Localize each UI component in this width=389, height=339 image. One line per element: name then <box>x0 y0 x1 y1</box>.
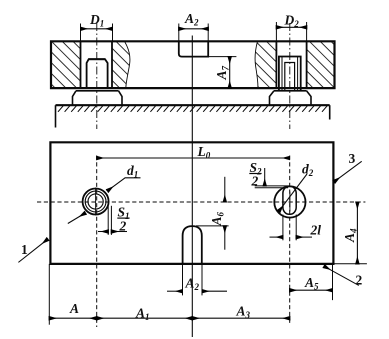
dimension L0 <box>97 157 290 159</box>
pin 2 body outer <box>279 57 301 91</box>
dimension A6 <box>196 225 229 227</box>
svg-text:2: 2 <box>251 174 259 189</box>
hatched block mid-left <box>112 41 130 88</box>
pin 2 land (stadium) <box>283 186 296 214</box>
hole 2 left edge <box>275 41 277 88</box>
dimension A2 (bottom) extension lines <box>182 264 184 296</box>
hatched block left <box>51 41 81 88</box>
leader 1 <box>18 239 47 262</box>
hole d1 inner <box>88 194 103 209</box>
svg-text:A2: A2 <box>185 276 200 293</box>
svg-text:A4: A4 <box>342 228 359 243</box>
svg-text:A2: A2 <box>184 11 199 28</box>
dimension D2 <box>275 22 277 41</box>
S1 fraction bar <box>117 217 129 219</box>
svg-text:A7: A7 <box>214 65 231 80</box>
svg-text:1: 1 <box>21 242 28 257</box>
slot (plan) <box>183 226 202 264</box>
S1/2 dimension arrows <box>98 231 108 233</box>
leader 3 <box>334 161 362 181</box>
svg-text:2l: 2l <box>310 223 322 238</box>
hole 2 right edge <box>306 41 308 88</box>
dimension A <box>49 317 96 319</box>
2l extension lines <box>282 215 284 241</box>
hatched block mid-right <box>255 41 276 88</box>
svg-text:d1: d1 <box>127 163 138 180</box>
leader d1 <box>108 178 141 191</box>
hatched block right <box>307 41 335 88</box>
dimension A2 (top) <box>178 24 180 42</box>
pin 2 flange <box>270 91 312 105</box>
d1 center mark <box>95 188 97 216</box>
dimension A4 <box>335 263 367 265</box>
S2 fraction bar <box>249 173 261 175</box>
S2/2 arrow <box>264 168 266 186</box>
dimension A5 <box>332 264 334 300</box>
dimension D1 <box>80 24 82 41</box>
pin 1 body <box>87 59 108 88</box>
S1/2 extension lines <box>107 206 109 235</box>
dimension A1 <box>97 317 193 319</box>
base (table) line <box>56 104 330 106</box>
pin 2 centerline <box>289 23 291 129</box>
hole d2 circle <box>274 186 305 217</box>
horizontal dashed centerline <box>37 201 365 203</box>
pin 1 top edge <box>89 58 105 60</box>
vertical dashed line at d2 <box>289 156 291 326</box>
central axis line <box>191 36 193 338</box>
dimension A3 <box>192 317 289 319</box>
svg-text:2: 2 <box>119 219 127 234</box>
base left end <box>55 105 57 127</box>
d2 center mark <box>289 192 291 212</box>
svg-text:A6: A6 <box>209 211 226 226</box>
svg-text:A5: A5 <box>304 275 319 292</box>
pin 1 centerline <box>96 23 98 129</box>
pin 1 flange <box>73 91 123 105</box>
plate outline (plan) <box>50 142 333 264</box>
svg-text:A1: A1 <box>135 306 150 323</box>
left edge extension <box>48 264 50 325</box>
leader d2 <box>279 174 307 211</box>
leader to d1 lower-left <box>68 213 86 224</box>
2l dimension arrows <box>270 236 283 238</box>
break line (wavy) right of pin 1 <box>125 41 130 88</box>
base right end <box>329 105 331 119</box>
vertical dashed line at d1 <box>96 156 98 328</box>
break line (wavy) left of pin 2 <box>255 41 258 88</box>
notch (slot A2) in plate <box>179 41 208 56</box>
hole d1 middle <box>85 191 106 212</box>
dimension A7 <box>208 56 236 58</box>
jig plate outline <box>51 41 335 88</box>
pin 2 inner flats <box>282 57 298 91</box>
svg-text:D2: D2 <box>284 13 300 30</box>
svg-text:2: 2 <box>356 273 363 288</box>
svg-text:D1: D1 <box>89 12 104 29</box>
A2 bottom arrows <box>167 290 183 292</box>
base hatch ticks <box>58 106 327 112</box>
hole 1 left edge <box>80 41 82 88</box>
svg-text:d2: d2 <box>302 162 314 179</box>
pin 2 inner land <box>285 63 295 91</box>
hole 1 right edge <box>111 41 113 88</box>
hole d1 outer <box>83 189 109 215</box>
svg-text:A: A <box>69 301 79 316</box>
S2/2 gap lines <box>255 185 290 187</box>
svg-text:A3: A3 <box>236 304 251 321</box>
leader 2 <box>324 266 359 285</box>
svg-text:3: 3 <box>349 151 356 166</box>
svg-text:L0: L0 <box>197 144 211 161</box>
